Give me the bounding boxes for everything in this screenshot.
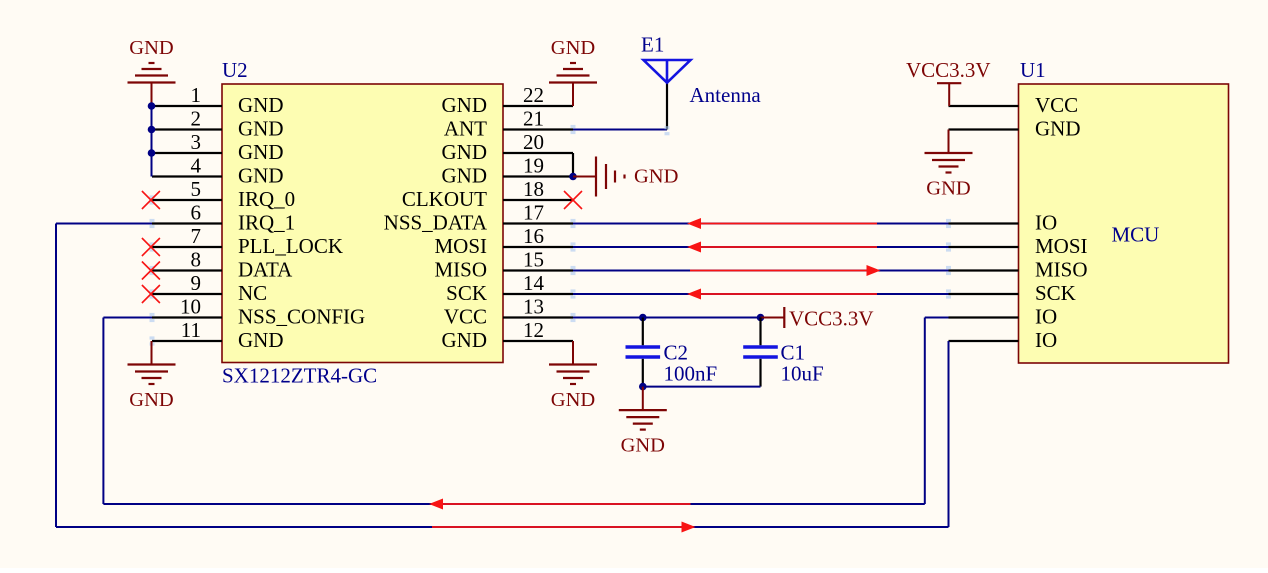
svg-text:MISO: MISO xyxy=(434,258,487,282)
svg-text:8: 8 xyxy=(191,248,202,272)
svg-text:IRQ_0: IRQ_0 xyxy=(238,187,295,211)
svg-text:6: 6 xyxy=(191,201,202,225)
svg-text:12: 12 xyxy=(523,318,544,342)
svg-text:9: 9 xyxy=(191,271,202,295)
svg-text:GND: GND xyxy=(621,435,665,457)
svg-text:GND: GND xyxy=(129,389,173,411)
svg-text:15: 15 xyxy=(523,248,544,272)
svg-text:20: 20 xyxy=(523,130,544,154)
svg-text:GND: GND xyxy=(238,93,284,117)
svg-text:22: 22 xyxy=(523,83,544,107)
svg-text:Antenna: Antenna xyxy=(690,83,762,107)
svg-text:5: 5 xyxy=(191,177,202,201)
svg-text:CLKOUT: CLKOUT xyxy=(402,187,487,211)
svg-text:100nF: 100nF xyxy=(664,361,718,385)
svg-text:IO: IO xyxy=(1035,305,1057,329)
svg-text:GND: GND xyxy=(442,164,488,188)
svg-text:3: 3 xyxy=(191,130,202,154)
svg-text:IO: IO xyxy=(1035,328,1057,352)
svg-text:7: 7 xyxy=(191,224,202,248)
svg-text:4: 4 xyxy=(191,154,202,178)
svg-text:U1: U1 xyxy=(1020,58,1046,82)
svg-text:GND: GND xyxy=(551,389,595,411)
svg-text:GND: GND xyxy=(1035,117,1081,141)
svg-text:MOSI: MOSI xyxy=(434,234,487,258)
svg-text:DATA: DATA xyxy=(238,258,293,282)
svg-text:SX1212ZTR4-GC: SX1212ZTR4-GC xyxy=(222,364,377,388)
svg-text:13: 13 xyxy=(523,295,544,319)
svg-text:VCC: VCC xyxy=(1035,93,1078,117)
svg-text:PLL_LOCK: PLL_LOCK xyxy=(238,234,343,258)
svg-text:MCU: MCU xyxy=(1112,223,1160,247)
svg-text:14: 14 xyxy=(523,271,545,295)
svg-text:VCC: VCC xyxy=(444,305,487,329)
svg-text:MISO: MISO xyxy=(1035,258,1088,282)
svg-text:ANT: ANT xyxy=(444,117,487,141)
svg-text:MOSI: MOSI xyxy=(1035,234,1088,258)
svg-text:GND: GND xyxy=(238,164,284,188)
svg-text:VCC3.3V: VCC3.3V xyxy=(789,306,874,330)
svg-text:U2: U2 xyxy=(222,58,248,82)
svg-text:NC: NC xyxy=(238,281,267,305)
svg-text:GND: GND xyxy=(238,140,284,164)
svg-text:IO: IO xyxy=(1035,211,1057,235)
svg-text:10uF: 10uF xyxy=(781,361,824,385)
svg-text:GND: GND xyxy=(551,37,595,59)
svg-text:GND: GND xyxy=(238,328,284,352)
svg-text:VCC3.3V: VCC3.3V xyxy=(906,58,991,82)
svg-text:GND: GND xyxy=(238,117,284,141)
svg-text:NSS_CONFIG: NSS_CONFIG xyxy=(238,305,365,329)
svg-text:10: 10 xyxy=(180,295,201,319)
svg-text:E1: E1 xyxy=(641,33,664,57)
svg-text:11: 11 xyxy=(181,318,201,342)
svg-text:GND: GND xyxy=(634,166,678,188)
svg-text:GND: GND xyxy=(129,37,173,59)
svg-text:GND: GND xyxy=(442,328,488,352)
svg-text:1: 1 xyxy=(191,83,202,107)
svg-text:2: 2 xyxy=(191,107,202,131)
svg-text:GND: GND xyxy=(442,140,488,164)
svg-text:GND: GND xyxy=(442,93,488,117)
svg-text:21: 21 xyxy=(523,107,544,131)
svg-text:18: 18 xyxy=(523,177,544,201)
svg-text:16: 16 xyxy=(523,224,544,248)
svg-text:SCK: SCK xyxy=(446,281,487,305)
svg-text:IRQ_1: IRQ_1 xyxy=(238,211,295,235)
svg-text:SCK: SCK xyxy=(1035,281,1076,305)
svg-text:GND: GND xyxy=(926,178,970,200)
svg-text:NSS_DATA: NSS_DATA xyxy=(384,211,488,235)
svg-text:17: 17 xyxy=(523,201,544,225)
svg-text:19: 19 xyxy=(523,154,544,178)
